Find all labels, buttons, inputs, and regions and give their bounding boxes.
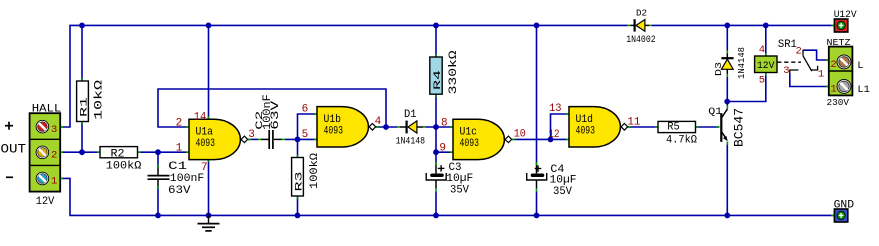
svg-text:4: 4: [375, 116, 382, 128]
svg-text:230V: 230V: [827, 98, 850, 108]
svg-text:U1a: U1a: [196, 127, 214, 139]
svg-text:10µF: 10µF: [446, 173, 473, 185]
svg-text:L: L: [857, 60, 863, 72]
svg-text:C1: C1: [168, 161, 188, 173]
svg-text:12: 12: [549, 129, 560, 141]
svg-text:35V: 35V: [553, 186, 572, 198]
svg-text:BC547: BC547: [731, 108, 746, 147]
svg-text:NETZ: NETZ: [827, 38, 852, 48]
svg-text:HALL: HALL: [32, 104, 61, 116]
svg-text:1N4002: 1N4002: [626, 35, 656, 46]
svg-text:4.7kΩ: 4.7kΩ: [666, 135, 697, 147]
svg-text:R2: R2: [111, 148, 125, 160]
svg-text:9: 9: [439, 143, 446, 155]
svg-text:5: 5: [759, 74, 765, 86]
svg-text:1: 1: [830, 83, 836, 95]
svg-text:D3: D3: [714, 62, 724, 76]
svg-text:R1: R1: [79, 97, 90, 117]
svg-text:1: 1: [176, 143, 183, 155]
svg-text:12V: 12V: [36, 196, 55, 208]
svg-text:7: 7: [201, 162, 208, 174]
svg-text:4093: 4093: [324, 125, 344, 137]
svg-text:2: 2: [51, 150, 57, 162]
svg-text:63V: 63V: [168, 185, 191, 197]
svg-text:4093: 4093: [460, 138, 480, 150]
svg-text:D2: D2: [636, 8, 647, 18]
svg-text:OUT: OUT: [1, 143, 27, 157]
svg-text:3: 3: [783, 65, 789, 77]
svg-text:63V: 63V: [270, 100, 282, 130]
svg-text:4: 4: [759, 44, 765, 56]
svg-text:1: 1: [51, 176, 57, 188]
svg-text:14: 14: [194, 112, 207, 124]
svg-text:12V: 12V: [757, 60, 775, 72]
svg-text:6: 6: [302, 104, 309, 116]
svg-text:Q1: Q1: [708, 107, 722, 118]
svg-text:100nF: 100nF: [170, 173, 205, 185]
svg-text:R3: R3: [294, 172, 305, 192]
svg-text:1: 1: [818, 69, 824, 81]
svg-text:3: 3: [51, 124, 57, 136]
svg-text:4093: 4093: [576, 125, 596, 137]
svg-text:U1d: U1d: [576, 114, 594, 126]
svg-text:11: 11: [627, 117, 640, 129]
svg-text:2: 2: [176, 117, 183, 129]
svg-text:330kΩ: 330kΩ: [448, 50, 460, 95]
svg-text:2: 2: [796, 46, 802, 58]
svg-text:R5: R5: [667, 122, 680, 134]
svg-text:1N4148: 1N4148: [396, 135, 426, 147]
svg-text:L1: L1: [857, 84, 870, 96]
svg-text:4093: 4093: [196, 138, 216, 150]
svg-text:2: 2: [830, 59, 836, 71]
svg-text:10: 10: [514, 129, 526, 141]
svg-text:U12V: U12V: [834, 9, 858, 21]
svg-text:SR1: SR1: [778, 39, 797, 51]
svg-text:1N4148: 1N4148: [737, 47, 747, 79]
svg-text:8: 8: [441, 117, 448, 129]
svg-text:GND: GND: [834, 199, 855, 211]
svg-text:10µF: 10µF: [550, 175, 577, 187]
svg-text:10kΩ: 10kΩ: [94, 79, 106, 120]
svg-text:3: 3: [248, 129, 255, 141]
svg-text:U1c: U1c: [460, 127, 478, 139]
svg-text:13: 13: [549, 103, 562, 115]
svg-text:35V: 35V: [450, 184, 469, 196]
svg-text:5: 5: [302, 129, 309, 141]
svg-text:D1: D1: [404, 109, 417, 121]
svg-text:100kΩ: 100kΩ: [309, 153, 321, 189]
svg-text:U1b: U1b: [324, 114, 342, 126]
svg-text:100kΩ: 100kΩ: [106, 160, 142, 172]
svg-text:R4: R4: [433, 70, 444, 90]
